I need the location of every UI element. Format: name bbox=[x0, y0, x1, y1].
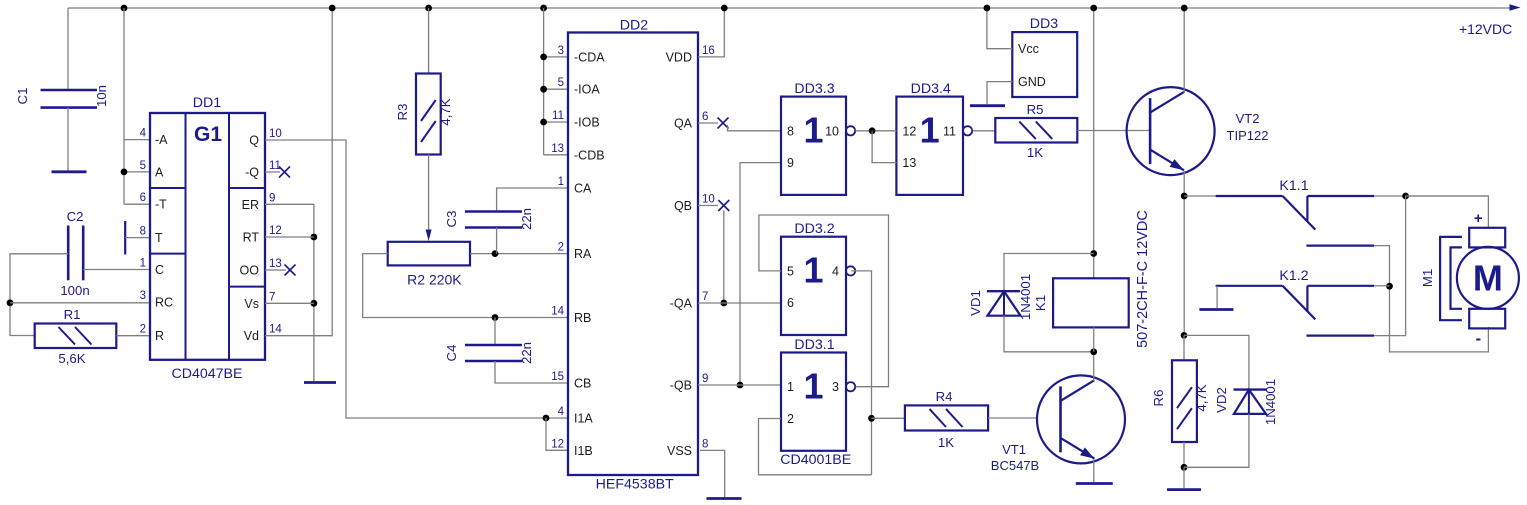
svg-text:G1: G1 bbox=[194, 123, 222, 146]
label DD3.4 bbox=[911, 81, 951, 97]
label CD4001BE bbox=[780, 452, 851, 468]
label R6 value 4,7K bbox=[1194, 384, 1209, 411]
junction rail-K1 bbox=[1090, 5, 1097, 12]
svg-text:4: 4 bbox=[140, 128, 147, 140]
svg-text:RB: RB bbox=[574, 311, 591, 325]
svg-text:M1: M1 bbox=[1420, 269, 1435, 287]
label R6 bbox=[1151, 390, 1166, 407]
wire VT1 emitter to ground bbox=[1093, 459, 1095, 482]
svg-text:OO: OO bbox=[240, 264, 260, 278]
label K1 type 507-2CH-F-C 12VDC bbox=[1135, 210, 1151, 348]
wire DD2 -QA to DD3.2 pin 6 bbox=[698, 302, 781, 304]
wire VD1 top branch bbox=[1004, 254, 1094, 316]
svg-text:22n: 22n bbox=[519, 342, 534, 364]
svg-text:8: 8 bbox=[787, 124, 794, 138]
label DD3.2 bbox=[794, 221, 834, 237]
svg-text:-QA: -QA bbox=[670, 297, 693, 311]
svg-text:BC547B: BC547B bbox=[991, 458, 1039, 473]
relay contact K1.2 lower throw bbox=[1306, 335, 1374, 337]
wire R5 to VT2 base bbox=[1077, 130, 1150, 132]
svg-text:ER: ER bbox=[242, 198, 259, 212]
svg-text:6: 6 bbox=[702, 111, 708, 123]
junction at DD1 pin 5 bbox=[121, 169, 128, 176]
svg-text:4,7K: 4,7K bbox=[1194, 384, 1209, 411]
label DD1 bbox=[193, 95, 221, 111]
svg-text:HEF4538BT: HEF4538BT bbox=[596, 477, 674, 493]
junction DD3.3 output bbox=[869, 127, 876, 134]
resistor R1 bbox=[35, 324, 117, 349]
motor M1 frame bracket inner bbox=[1451, 247, 1462, 308]
svg-text:8: 8 bbox=[702, 438, 708, 450]
junction R4 node bbox=[868, 415, 875, 422]
IC DD1 CD4047BE body bbox=[150, 113, 265, 360]
capacitor C2 bbox=[68, 226, 83, 281]
wire K1 coil bottom bbox=[1093, 327, 1095, 351]
svg-text:Q: Q bbox=[249, 134, 259, 148]
wire VT2 collector to rail bbox=[1183, 8, 1185, 93]
wire DD2 QA stub bbox=[698, 122, 718, 124]
label VD2 value 1N4001 bbox=[1263, 379, 1278, 425]
label K1 bbox=[1033, 295, 1048, 311]
svg-text:1: 1 bbox=[140, 258, 146, 270]
svg-text:-QB: -QB bbox=[670, 379, 692, 393]
svg-text:R3: R3 bbox=[395, 104, 410, 121]
svg-text:2: 2 bbox=[140, 324, 146, 336]
svg-text:+12VDC: +12VDC bbox=[1459, 21, 1512, 37]
svg-text:M: M bbox=[1473, 258, 1503, 299]
label R5 bbox=[1027, 102, 1044, 117]
svg-text:R: R bbox=[155, 329, 164, 343]
label C1 bbox=[15, 88, 30, 105]
label VT1 bbox=[1002, 442, 1026, 457]
ground below DD1 bbox=[304, 381, 336, 384]
svg-text:TIP122: TIP122 bbox=[1227, 128, 1269, 143]
capacitor C1 bbox=[41, 90, 98, 108]
wire to DD2 pin 3 bbox=[544, 56, 568, 58]
svg-text:3: 3 bbox=[558, 45, 564, 57]
wire DD3.1 pin 2 feedback loop bbox=[759, 419, 872, 475]
svg-text:7: 7 bbox=[702, 291, 708, 303]
wire DD2 QB stub bbox=[698, 205, 718, 207]
junction I1A feed bbox=[543, 415, 550, 422]
label R1 bbox=[64, 307, 81, 322]
svg-text:R1: R1 bbox=[64, 307, 81, 322]
label C2 bbox=[67, 209, 84, 224]
wire to DD2 pin 5 bbox=[544, 88, 568, 90]
wire DD1 Vs stub bbox=[265, 302, 314, 304]
svg-text:11: 11 bbox=[552, 110, 564, 122]
label R3 value 4,7K bbox=[438, 98, 453, 125]
svg-text:11: 11 bbox=[943, 124, 956, 138]
transistor VT2 TIP122 bbox=[1127, 87, 1215, 175]
ground below C1 bbox=[52, 170, 87, 173]
svg-text:100n: 100n bbox=[60, 283, 89, 298]
junction at DD1 RT bbox=[311, 234, 318, 241]
junction rail-VT2 bbox=[1181, 5, 1188, 12]
svg-text:QB: QB bbox=[674, 199, 692, 213]
label VD1 value 1N4001 bbox=[1018, 274, 1033, 320]
svg-text:5: 5 bbox=[787, 264, 794, 278]
wire to DD1 pin 6 bbox=[124, 203, 150, 205]
wire node to R4 bbox=[872, 417, 905, 419]
DD2 right pin names bbox=[666, 50, 693, 458]
wire VT2 emitter down bbox=[1183, 171, 1185, 336]
svg-text:10n: 10n bbox=[94, 85, 109, 107]
wire T bar to DD1 pin 8 bbox=[125, 237, 150, 239]
no-connect X at DD2 QB bbox=[718, 200, 729, 211]
bar at DD1 pin 8 T bbox=[124, 221, 126, 255]
logic gate DD3.4 bbox=[896, 97, 972, 195]
wire K1.2 common to ground bbox=[1216, 286, 1218, 308]
motor M1 terminal - bbox=[1469, 309, 1505, 329]
capacitor C3 bbox=[465, 212, 522, 228]
label M1 bbox=[1420, 269, 1435, 287]
svg-text:16: 16 bbox=[702, 45, 715, 57]
wire VD1 bottom branch bbox=[1004, 316, 1094, 352]
svg-text:CD4047BE: CD4047BE bbox=[172, 366, 243, 382]
label C4 bbox=[444, 345, 459, 362]
label R1 value 5,6K bbox=[58, 351, 85, 366]
svg-text:DD3: DD3 bbox=[1030, 16, 1058, 32]
svg-text:DD3.1: DD3.1 bbox=[794, 337, 834, 353]
label R4 bbox=[936, 389, 953, 404]
no-connect X at DD2 QA bbox=[718, 118, 729, 129]
svg-text:5: 5 bbox=[140, 160, 146, 172]
junction R6 top bbox=[1181, 332, 1188, 339]
svg-text:1: 1 bbox=[558, 176, 564, 188]
svg-text:DD3.4: DD3.4 bbox=[911, 81, 951, 97]
no-connect X at DD1 pin 11 bbox=[279, 167, 290, 178]
junction rail-R3 bbox=[425, 5, 432, 12]
label DD3 bbox=[1030, 16, 1058, 32]
label +12VDC bbox=[1459, 21, 1512, 37]
wire RB node to C4 bbox=[494, 318, 496, 346]
junction DD2 pin 5 bbox=[540, 86, 547, 93]
svg-text:3: 3 bbox=[140, 290, 146, 302]
junction at DD1 Vs bbox=[311, 300, 318, 307]
svg-text:K1.2: K1.2 bbox=[1279, 268, 1308, 284]
svg-text:QA: QA bbox=[674, 117, 693, 131]
svg-text:9: 9 bbox=[269, 192, 275, 204]
label VD2 bbox=[1214, 387, 1229, 413]
wire K1.1 lower to K1.2 node bbox=[1374, 246, 1488, 352]
relay contact K1.1 lower throw bbox=[1306, 245, 1374, 247]
wire DD3.3 out to DD3.4 pin 13 bbox=[872, 131, 896, 163]
junction rail-DD2 inputs bbox=[540, 5, 547, 12]
wire emitter node to K1.1 bbox=[1184, 195, 1215, 197]
svg-text:5,6K: 5,6K bbox=[58, 351, 85, 366]
wire DD3.3 out to DD3.4 in bbox=[855, 130, 896, 132]
label VT2 bbox=[1236, 111, 1260, 126]
potentiometer R2 body bbox=[388, 242, 470, 266]
resistor R3 bbox=[416, 74, 441, 155]
label C4 value 22n bbox=[519, 342, 534, 364]
motor M1 frame bracket outer bbox=[1440, 237, 1462, 320]
junction on -QB line bbox=[737, 382, 744, 389]
wire node to DD1 pin 3 RC bbox=[10, 302, 150, 304]
label K1.1 bbox=[1279, 178, 1308, 194]
wire DD1 Vd to rail bbox=[265, 8, 332, 336]
wire R6 bottom bbox=[1183, 442, 1185, 467]
label CD4047BE bbox=[172, 366, 243, 382]
svg-text:5: 5 bbox=[558, 77, 564, 89]
wire DD3.4 out to R5 bbox=[973, 130, 996, 132]
IC DD2 HEF4538BT body bbox=[568, 33, 698, 476]
label DD3.3 bbox=[794, 81, 834, 97]
svg-text:7: 7 bbox=[269, 291, 275, 303]
wire C2 right plate to DD1 pin 1 C bbox=[83, 269, 150, 271]
junction rail-DD1 feed bbox=[121, 5, 128, 12]
wire +12VDC power rail bbox=[68, 7, 1513, 9]
svg-text:9: 9 bbox=[787, 156, 794, 170]
svg-text:11: 11 bbox=[269, 160, 281, 172]
label C3 value 22n bbox=[519, 208, 534, 230]
svg-text:R6: R6 bbox=[1151, 390, 1166, 407]
svg-text:4: 4 bbox=[832, 264, 839, 278]
wire R6 to ground bbox=[1183, 467, 1185, 488]
wire C3 to RA node bbox=[496, 228, 498, 254]
svg-text:CA: CA bbox=[574, 182, 592, 196]
relay contact K1.2 bbox=[1216, 286, 1374, 320]
svg-text:R4: R4 bbox=[936, 389, 953, 404]
svg-text:A: A bbox=[155, 165, 164, 179]
motor M1 terminal + bbox=[1469, 228, 1505, 248]
svg-text:+: + bbox=[1474, 210, 1483, 227]
junction VD1 top bbox=[1090, 250, 1097, 257]
svg-text:C4: C4 bbox=[444, 345, 459, 362]
DD3 pin names bbox=[1018, 42, 1046, 89]
wire DD3.2 out down to R4 node bbox=[851, 271, 871, 475]
wire rail to R3 bbox=[428, 8, 430, 74]
junction K1.2 node bbox=[1386, 283, 1393, 290]
wire DD3.3 pin 9 to -QB line bbox=[740, 163, 781, 385]
logic gate DD3.1 bbox=[781, 353, 855, 451]
relay contact K1.1 bbox=[1216, 196, 1374, 230]
wire DD1 pin 13 stub bbox=[265, 269, 286, 271]
wire to DD1 pin 5 bbox=[124, 171, 150, 173]
wire K1 top to rail bbox=[1093, 8, 1095, 278]
logic gate DD3.2 bbox=[781, 237, 855, 335]
svg-text:VT1: VT1 bbox=[1002, 442, 1026, 457]
junction RA-C3 bbox=[492, 250, 499, 257]
svg-text:-T: -T bbox=[155, 198, 167, 212]
wire I1A node to DD2 I1B bbox=[546, 418, 568, 450]
svg-text:R2 220K: R2 220K bbox=[407, 272, 462, 288]
wire K1.1 to motor node bbox=[1374, 195, 1488, 197]
relay coil K1 bbox=[1053, 278, 1129, 327]
junction on -QA line bbox=[720, 300, 727, 307]
junction VD1 bottom bbox=[1090, 348, 1097, 355]
wire VT1 collector bbox=[1093, 352, 1095, 381]
label G1 bbox=[194, 123, 222, 146]
svg-text:6: 6 bbox=[140, 192, 146, 204]
svg-text:Vd: Vd bbox=[244, 329, 259, 343]
wire R2 right to DD2 RA bbox=[470, 253, 568, 255]
svg-text:T: T bbox=[155, 231, 163, 245]
label motor minus bbox=[1475, 329, 1481, 348]
junction rail-Vd bbox=[329, 5, 336, 12]
junction R6 bottom bbox=[1181, 464, 1188, 471]
wire rail down to DD1 inputs bbox=[123, 8, 125, 204]
ground below VT1 bbox=[1076, 482, 1113, 485]
capacitor C4 bbox=[465, 345, 522, 361]
wire to DD2 pin 13 bbox=[544, 154, 568, 156]
wire to DD1 pin 4 bbox=[124, 139, 150, 141]
svg-text:I1A: I1A bbox=[574, 412, 593, 426]
svg-text:1: 1 bbox=[787, 380, 794, 394]
svg-text:1: 1 bbox=[920, 110, 940, 151]
svg-text:12: 12 bbox=[269, 225, 282, 237]
label R3 bbox=[395, 104, 410, 121]
resistor R5 bbox=[995, 118, 1077, 143]
wire K1.2 to node bbox=[1374, 285, 1390, 287]
wire DD3 Vcc to rail bbox=[987, 8, 1012, 49]
label motor plus bbox=[1474, 210, 1483, 227]
svg-text:3: 3 bbox=[832, 380, 839, 394]
logic gate DD3.3 bbox=[781, 97, 855, 195]
wire DD1 pin 11 stub bbox=[265, 171, 280, 173]
wire VD2 bottom branch bbox=[1184, 414, 1249, 467]
wire K1.2 lower to motor+ node bbox=[1374, 196, 1406, 336]
DD1 right pin numbers bbox=[269, 128, 282, 336]
wire DD2 VDD to rail bbox=[698, 8, 724, 57]
svg-text:1N4001: 1N4001 bbox=[1018, 274, 1033, 320]
svg-text:-A: -A bbox=[155, 133, 168, 147]
wire DD2 VSS to ground bbox=[700, 450, 725, 497]
wire DD3 GND to ground bbox=[987, 82, 1012, 104]
svg-text:6: 6 bbox=[787, 296, 794, 310]
svg-text:-Q: -Q bbox=[245, 166, 259, 180]
junction DD2 pin 11 bbox=[540, 119, 547, 126]
junction rail-VDD bbox=[721, 5, 728, 12]
svg-text:1K: 1K bbox=[938, 435, 954, 450]
no-connect X at DD1 pin 13 bbox=[285, 265, 296, 276]
svg-text:1: 1 bbox=[803, 366, 823, 407]
ground at K1.2 bbox=[1199, 308, 1233, 311]
svg-text:10: 10 bbox=[825, 124, 839, 138]
svg-text:VD2: VD2 bbox=[1214, 387, 1229, 413]
ground below R6 bbox=[1167, 488, 1201, 491]
wire R2 left to RB bbox=[363, 254, 568, 318]
wire C4 to DD2 CB bbox=[495, 361, 568, 383]
label C3 bbox=[444, 211, 459, 228]
svg-text:DD3.3: DD3.3 bbox=[794, 81, 834, 97]
R2 wiper arrowhead bbox=[426, 230, 432, 242]
junction rail-DD3 bbox=[984, 5, 991, 12]
svg-text:VDD: VDD bbox=[666, 50, 692, 64]
svg-text:Vs: Vs bbox=[244, 297, 259, 311]
power rail arrowhead +12VDC bbox=[1510, 4, 1521, 11]
svg-text:CB: CB bbox=[574, 377, 591, 391]
svg-text:-CDB: -CDB bbox=[574, 148, 605, 162]
wire DD1 ER chain bbox=[265, 204, 314, 381]
wire to DD2 pin 11 bbox=[544, 121, 568, 123]
svg-text:Vcc: Vcc bbox=[1018, 42, 1039, 56]
svg-text:RC: RC bbox=[155, 296, 173, 310]
svg-text:K1.1: K1.1 bbox=[1279, 178, 1308, 194]
svg-text:1N4001: 1N4001 bbox=[1263, 379, 1278, 425]
svg-text:C: C bbox=[155, 263, 164, 277]
wire DD3.1 out to DD3.2 pin 5 feedback bbox=[759, 215, 889, 387]
svg-text:-: - bbox=[1475, 329, 1481, 348]
diode VD2 1N4001 bbox=[1234, 390, 1267, 414]
svg-text:DD1: DD1 bbox=[193, 95, 221, 111]
wire R6 top bbox=[1183, 335, 1185, 360]
svg-text:-IOB: -IOB bbox=[574, 116, 600, 130]
diode VD1 1N4001 bbox=[987, 291, 1021, 316]
ground below DD3 bbox=[970, 104, 1005, 107]
DD1 right pin names bbox=[240, 134, 260, 344]
junction motor+ node bbox=[1402, 193, 1409, 200]
wire DD2 -QB to DD3.1 pin 1 bbox=[698, 384, 781, 386]
wire C2 left plate to node bbox=[10, 254, 68, 336]
svg-text:12: 12 bbox=[551, 438, 564, 450]
power block DD3 bbox=[1012, 32, 1077, 97]
wire R1 to DD1 pin 2 R bbox=[116, 335, 150, 337]
label VD1 bbox=[968, 290, 983, 316]
label TIP122 bbox=[1227, 128, 1269, 143]
transistor VT1 BC547B bbox=[1037, 375, 1125, 463]
DD2 left pin names bbox=[574, 50, 605, 457]
svg-text:22n: 22n bbox=[519, 208, 534, 230]
label K1.2 bbox=[1279, 268, 1308, 284]
svg-text:1: 1 bbox=[803, 110, 823, 151]
wire DD1 RT stub bbox=[265, 236, 314, 238]
svg-text:4: 4 bbox=[558, 406, 565, 418]
svg-text:14: 14 bbox=[269, 324, 282, 336]
svg-text:8: 8 bbox=[140, 226, 146, 238]
svg-text:-CDA: -CDA bbox=[574, 50, 605, 64]
svg-text:13: 13 bbox=[269, 258, 282, 270]
DD1 left pin names bbox=[155, 133, 173, 343]
wire DD1 Q to DD2 I1A bbox=[265, 140, 568, 418]
ground below DD2 VSS bbox=[707, 497, 742, 500]
label DD3.1 bbox=[794, 337, 834, 353]
svg-text:15: 15 bbox=[551, 371, 564, 383]
junction node RC bbox=[7, 299, 14, 306]
DD2 left pin numbers bbox=[551, 45, 564, 450]
DD1 left pin numbers bbox=[140, 128, 147, 336]
svg-text:2: 2 bbox=[558, 242, 564, 254]
label C1 value 10n bbox=[94, 85, 109, 107]
label R5 value 1K bbox=[1027, 145, 1043, 160]
svg-text:12: 12 bbox=[902, 124, 916, 138]
svg-text:C2: C2 bbox=[67, 209, 84, 224]
svg-text:507-2CH-F-C 12VDC: 507-2CH-F-C 12VDC bbox=[1135, 210, 1151, 348]
resistor R4 bbox=[905, 405, 988, 430]
wire R4 to VT1 base bbox=[988, 417, 1036, 419]
wire VD2 top branch bbox=[1184, 335, 1249, 414]
junction VT2 emitter node bbox=[1181, 193, 1188, 200]
svg-text:13: 13 bbox=[551, 143, 564, 155]
svg-text:RT: RT bbox=[243, 231, 260, 245]
label HEF4538BT bbox=[596, 477, 674, 493]
svg-text:VD1: VD1 bbox=[968, 290, 983, 316]
label R4 value 1K bbox=[938, 435, 954, 450]
svg-text:13: 13 bbox=[902, 156, 916, 170]
junction RB-C4 bbox=[492, 314, 499, 321]
resistor R6 bbox=[1172, 360, 1197, 442]
svg-text:I1B: I1B bbox=[574, 444, 593, 458]
label R2 220K bbox=[407, 272, 462, 288]
wire R3 to R2 wiper bbox=[428, 155, 430, 231]
svg-text:1K: 1K bbox=[1027, 145, 1043, 160]
wire QB X down to -QA line bbox=[723, 211, 725, 304]
wire motor+ node to motor bbox=[1406, 196, 1489, 228]
svg-text:14: 14 bbox=[551, 306, 564, 318]
svg-text:RA: RA bbox=[574, 247, 592, 261]
svg-text:K1: K1 bbox=[1033, 295, 1048, 311]
